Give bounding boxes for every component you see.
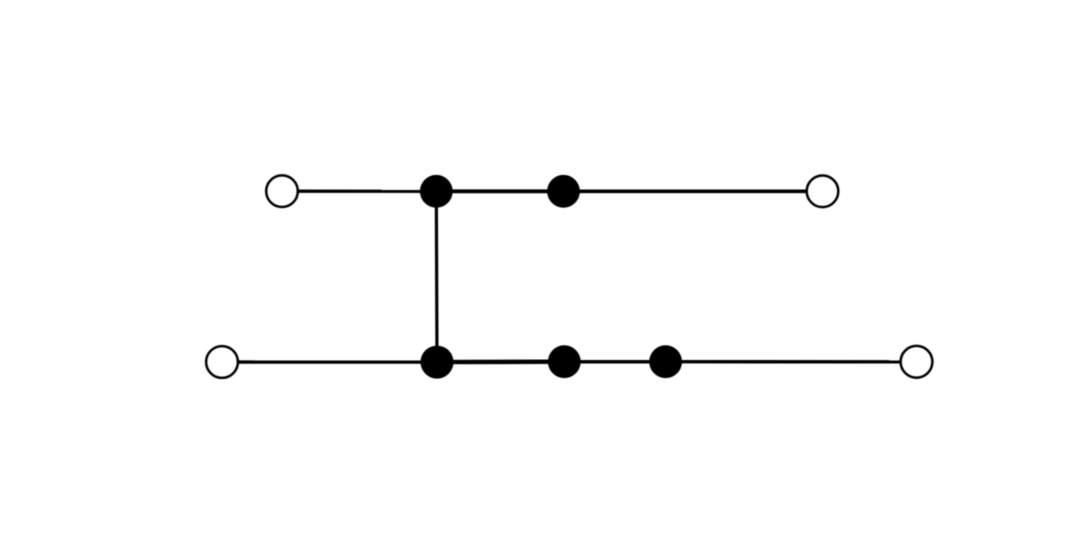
junction dot G (filled, bottom row second)	[548, 345, 581, 378]
node A (open circle, top-left terminal)	[266, 175, 298, 207]
wire top-left: open node A to junction B	[282, 190, 436, 193]
junction dot F (filled, bottom row first)	[421, 346, 454, 379]
wire bottom-right: junction H to open node I	[666, 360, 917, 363]
node I (open circle, bottom-right terminal)	[901, 346, 933, 378]
junction dot C (filled, top row second)	[547, 175, 580, 208]
wire bottom-left: open node E to junction F	[222, 360, 437, 364]
wire vertical: junction B down to junction F	[435, 191, 439, 362]
junction dot B (filled, top row first)	[420, 175, 453, 208]
wire bottom-middle: junction F to junction G	[437, 360, 564, 365]
node D (open circle, top-right terminal)	[807, 176, 839, 208]
wire bottom-middle-2: junction G to junction H	[564, 360, 665, 364]
wire top-middle: junction B to junction C	[436, 189, 563, 193]
junction dot H (filled, bottom row third)	[649, 345, 682, 378]
node E (open circle, bottom-left terminal)	[206, 346, 238, 378]
wire top-right: junction C to open node D	[564, 190, 823, 194]
